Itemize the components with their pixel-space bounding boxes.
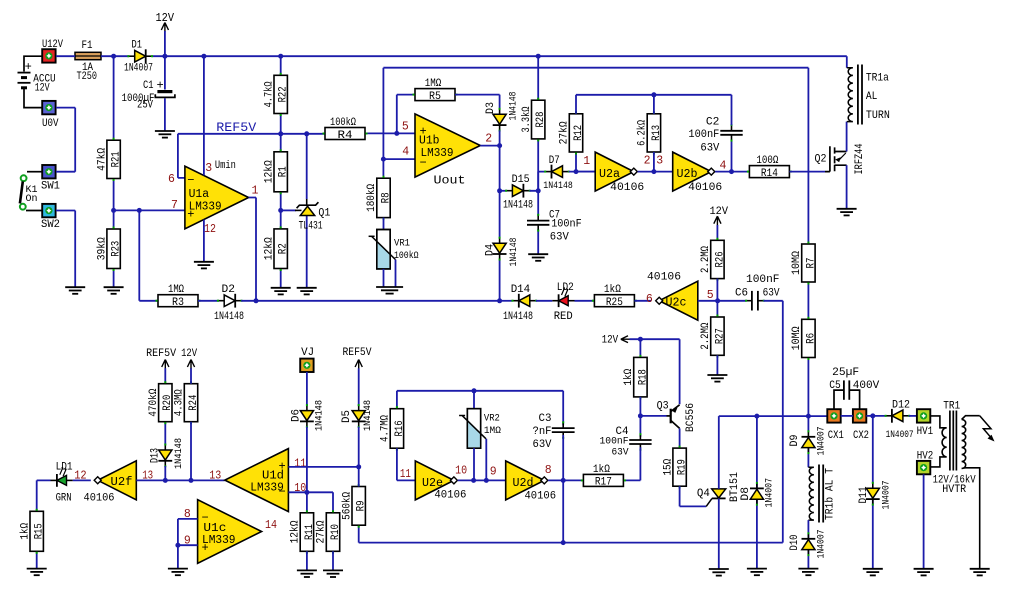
wire sense column xyxy=(807,68,809,416)
resistor R13 xyxy=(637,114,663,152)
wire D11 leads xyxy=(872,416,874,569)
junction xyxy=(162,54,167,59)
op-amp U1b LM339 xyxy=(415,114,480,177)
capacitor C5 xyxy=(834,380,860,409)
junction xyxy=(163,478,168,483)
svg-text:R18: R18 xyxy=(637,369,649,385)
svg-text:C3: C3 xyxy=(539,413,552,425)
wire R16-U2e xyxy=(397,448,415,480)
svg-text:100Ω: 100Ω xyxy=(756,155,778,167)
terminal SW1 xyxy=(42,165,55,178)
junction xyxy=(536,54,541,59)
svg-text:47kΩ: 47kΩ xyxy=(96,148,108,171)
inverter U2e 40106 xyxy=(415,461,457,500)
wire Q2 source xyxy=(846,165,848,209)
wire osc2 top rail xyxy=(397,391,563,426)
wire D10 leads xyxy=(807,520,809,569)
svg-text:HV1: HV1 xyxy=(917,426,934,438)
ground Q4 xyxy=(709,569,729,576)
diode D8 1N4007 xyxy=(750,483,764,504)
svg-text:1: 1 xyxy=(583,155,590,168)
wire pin11 line xyxy=(288,466,358,468)
svg-text:U0V: U0V xyxy=(42,118,59,130)
wire 12V arrow stem xyxy=(164,31,166,56)
resistor R10 xyxy=(316,513,342,552)
wire C6 right xyxy=(763,301,782,543)
svg-text:R10: R10 xyxy=(330,524,342,540)
svg-text:470kΩ: 470kΩ xyxy=(148,388,160,416)
junction xyxy=(394,131,399,136)
capacitor C6 100nF xyxy=(746,291,763,311)
wire R19-gate xyxy=(680,486,707,506)
wire U1a out xyxy=(249,198,256,301)
svg-text:LD1: LD1 xyxy=(56,461,73,473)
LED LD2 RED xyxy=(552,288,574,308)
svg-text:U2b: U2b xyxy=(677,168,698,181)
svg-text:R2: R2 xyxy=(278,243,290,254)
wire R27 bottom xyxy=(716,355,718,375)
resistor R17 xyxy=(583,464,623,489)
svg-text:R24: R24 xyxy=(188,394,200,410)
ground R15 xyxy=(27,569,47,576)
wire pin5 net xyxy=(365,95,415,134)
transistor Q2 IRFZ44 mosfet xyxy=(825,146,847,171)
svg-text:R9: R9 xyxy=(356,500,368,511)
svg-text:RED: RED xyxy=(554,311,573,323)
ground D10 xyxy=(798,569,818,576)
supply arrow 12V R26 xyxy=(714,216,721,226)
svg-text:VR1: VR1 xyxy=(394,238,410,250)
junction xyxy=(574,169,579,174)
wire R9 top xyxy=(358,467,360,487)
shunt-ref Q1 TL431 xyxy=(295,199,318,216)
junction xyxy=(254,298,259,303)
wire R28 leads xyxy=(537,56,539,191)
svg-text:R26: R26 xyxy=(714,251,726,267)
svg-text:1N4148: 1N4148 xyxy=(543,180,573,192)
svg-text:12: 12 xyxy=(204,223,216,236)
supply arrow 12V xyxy=(161,23,168,33)
svg-text:R25: R25 xyxy=(606,297,623,309)
svg-text:T250: T250 xyxy=(77,71,98,83)
svg-text:9: 9 xyxy=(490,466,497,479)
wire VR2 bottom xyxy=(473,448,475,480)
svg-text:R21: R21 xyxy=(111,151,123,167)
svg-text:11: 11 xyxy=(400,468,411,481)
svg-text:10MΩ: 10MΩ xyxy=(791,251,803,275)
svg-text:R19: R19 xyxy=(677,459,689,475)
svg-text:560kΩ: 560kΩ xyxy=(341,492,353,520)
svg-text:Uout: Uout xyxy=(434,175,466,188)
svg-text:Q2: Q2 xyxy=(815,154,827,166)
wire feedback sense xyxy=(383,68,808,179)
svg-text:U2d: U2d xyxy=(513,477,534,490)
supply arrow 12V left xyxy=(621,336,630,343)
battery ACCU wires xyxy=(24,56,42,107)
svg-text:1kΩ: 1kΩ xyxy=(604,284,621,296)
wire U1c inputs xyxy=(178,519,198,569)
svg-text:1: 1 xyxy=(252,185,259,198)
svg-text:TR1b AL T: TR1b AL T xyxy=(825,468,837,520)
svg-text:R22: R22 xyxy=(278,86,290,102)
resistor R8 xyxy=(366,178,392,217)
ground R11 xyxy=(297,570,317,577)
svg-text:Q4: Q4 xyxy=(697,488,710,500)
svg-text:TL431: TL431 xyxy=(299,221,323,233)
svg-text:4.3MΩ: 4.3MΩ xyxy=(174,389,186,416)
svg-text:C5: C5 xyxy=(829,380,841,392)
svg-text:27kΩ: 27kΩ xyxy=(559,121,571,144)
svg-text:2: 2 xyxy=(644,155,651,168)
svg-text:R28: R28 xyxy=(535,112,547,128)
ground R10 xyxy=(323,570,343,577)
resistor R7 xyxy=(791,244,817,282)
resistor R19 xyxy=(662,448,688,486)
svg-text:1N4007: 1N4007 xyxy=(764,478,776,508)
inverter U2a 40106 xyxy=(595,152,637,191)
terminal HV1 xyxy=(917,409,930,422)
transformer TR1a primary xyxy=(847,68,853,122)
svg-text:1MΩ: 1MΩ xyxy=(425,78,442,90)
svg-text:LM339: LM339 xyxy=(421,147,454,160)
svg-text:12V: 12V xyxy=(602,335,619,347)
svg-text:R3: R3 xyxy=(172,297,184,309)
svg-text:C1: C1 xyxy=(143,80,154,92)
svg-text:R14: R14 xyxy=(761,168,778,180)
diode D5 1N4148 xyxy=(352,406,366,427)
svg-text:180kΩ: 180kΩ xyxy=(366,184,378,212)
resistor R3 xyxy=(158,284,198,309)
svg-text:1N4007: 1N4007 xyxy=(816,427,828,456)
junction xyxy=(729,169,734,174)
svg-text:40106: 40106 xyxy=(688,182,722,194)
op-amp U1c LM339 xyxy=(198,500,262,564)
svg-text:F1: F1 xyxy=(82,40,93,52)
resistor R18 xyxy=(623,357,649,397)
svg-text:VR2: VR2 xyxy=(484,413,500,425)
wire C4 top xyxy=(639,416,641,437)
svg-text:HV2: HV2 xyxy=(917,450,934,462)
junction xyxy=(870,413,875,418)
ground U1a pin12 xyxy=(194,262,214,269)
diode D6 1N4148 xyxy=(300,406,314,427)
wire C2 top xyxy=(731,95,733,126)
wire R8-VR1 xyxy=(383,218,385,230)
wire D15-C7 node xyxy=(530,172,546,191)
svg-text:1N4148: 1N4148 xyxy=(503,200,533,212)
wire R22 leads xyxy=(280,56,282,288)
wire arrow-D5 xyxy=(358,368,360,406)
TR1 core xyxy=(950,411,957,471)
resistor R22 xyxy=(263,75,289,113)
wire CX line xyxy=(719,415,828,417)
svg-text:1N4148: 1N4148 xyxy=(503,311,533,323)
svg-text:U2c: U2c xyxy=(666,296,687,309)
svg-text:R1: R1 xyxy=(278,166,290,177)
wire R18-base xyxy=(640,397,666,416)
diode D13 1N4148 xyxy=(158,445,172,466)
svg-text:1MΩ: 1MΩ xyxy=(168,284,184,296)
svg-text:U12V: U12V xyxy=(42,39,63,51)
svg-text:R4: R4 xyxy=(338,130,353,142)
svg-text:6: 6 xyxy=(646,293,653,306)
capacitor C4 100nF xyxy=(629,435,651,450)
svg-text:12V: 12V xyxy=(710,206,729,218)
svg-text:?nF: ?nF xyxy=(533,426,552,438)
capacitor C2 100nF xyxy=(720,125,742,140)
wire U2c in xyxy=(698,300,718,302)
svg-text:U1a: U1a xyxy=(189,188,210,201)
svg-text:U1b: U1b xyxy=(419,135,440,148)
inverter U2c 40106 xyxy=(656,281,698,320)
svg-text:D2: D2 xyxy=(222,284,236,296)
ground VR1 xyxy=(376,287,403,294)
wire pin13 line xyxy=(136,479,225,481)
diode D12 1N4007 xyxy=(886,409,909,423)
ground C7 xyxy=(528,254,548,261)
svg-text:1N4007: 1N4007 xyxy=(816,530,828,559)
wire U2d out xyxy=(548,479,583,481)
ground R23 xyxy=(104,287,124,294)
wire pin7 line xyxy=(114,209,185,211)
wire R18 top xyxy=(639,339,641,357)
svg-text:10MΩ: 10MΩ xyxy=(791,326,803,350)
wire R10 gnd xyxy=(332,551,334,570)
wire D6-pin10 xyxy=(306,427,308,513)
resistor R16 xyxy=(380,409,406,449)
svg-text:4: 4 xyxy=(402,145,409,158)
svg-text:1N4007: 1N4007 xyxy=(881,481,893,510)
svg-text:D13: D13 xyxy=(150,448,162,463)
junction xyxy=(137,208,142,213)
thyristor Q4 BT151 xyxy=(706,489,726,507)
diode D1 1N4007 xyxy=(129,49,152,63)
svg-text:−: − xyxy=(187,173,194,187)
svg-text:63V: 63V xyxy=(533,439,552,451)
svg-text:REF5V: REF5V xyxy=(343,347,372,359)
node REF5V/R22/R1 xyxy=(278,131,283,136)
svg-text:LM339: LM339 xyxy=(202,534,236,547)
fuse F1 xyxy=(75,52,101,59)
junction xyxy=(278,208,283,213)
svg-text:6: 6 xyxy=(168,173,175,186)
svg-text:Q3: Q3 xyxy=(657,400,669,412)
transformer TR1b feedback winding xyxy=(808,467,814,520)
wire D3 to out xyxy=(499,130,501,145)
op-amp U1a LM339 xyxy=(185,166,249,229)
wire D9 leads xyxy=(807,416,809,467)
svg-text:CX2: CX2 xyxy=(853,430,869,442)
wire LD2-R25 xyxy=(575,300,595,302)
svg-text:D5: D5 xyxy=(341,410,353,423)
resistor R27 xyxy=(700,317,726,355)
svg-text:D1: D1 xyxy=(132,40,143,52)
resistor R11 xyxy=(290,513,316,552)
resistor R12 xyxy=(559,114,585,152)
svg-text:TR1a: TR1a xyxy=(866,73,889,85)
terminal HV2 xyxy=(917,461,930,474)
wire HV2 ground xyxy=(923,474,925,569)
resistor R20 xyxy=(148,384,174,422)
wire C1 net xyxy=(164,56,166,131)
wire U1b out xyxy=(480,146,499,191)
inverter U2b 40106 xyxy=(673,152,715,191)
svg-text:1N4148: 1N4148 xyxy=(173,438,185,469)
svg-text:LD2: LD2 xyxy=(557,282,574,294)
svg-text:+: + xyxy=(187,208,194,222)
svg-text:D9: D9 xyxy=(789,435,801,447)
svg-text:63V: 63V xyxy=(612,446,630,458)
resistor R5 xyxy=(415,78,455,103)
inverter U2d 40106 xyxy=(506,461,548,500)
ground HV2 xyxy=(914,569,934,576)
wire U2b out xyxy=(715,140,749,172)
svg-text:6.2kΩ: 6.2kΩ xyxy=(637,120,649,146)
terminal SW2 xyxy=(42,204,55,217)
svg-text:100kΩ: 100kΩ xyxy=(394,250,419,262)
resistor R2 xyxy=(263,229,289,269)
svg-text:100nF: 100nF xyxy=(551,219,582,231)
wire D2 out xyxy=(241,300,499,302)
wire R3 branch xyxy=(139,210,158,300)
svg-text:+: + xyxy=(25,60,32,74)
svg-text:D3: D3 xyxy=(485,102,497,114)
ground D8 xyxy=(747,569,767,576)
wire F1 node down xyxy=(113,56,115,287)
wire osc top rail xyxy=(576,95,732,114)
wire Q1 anode xyxy=(306,216,308,288)
wire U2a in xyxy=(576,152,595,172)
terminal U12V xyxy=(42,49,55,62)
svg-text:14: 14 xyxy=(265,519,277,532)
wire CX1-CX2 xyxy=(841,415,853,417)
battery ACCU 12V xyxy=(18,73,31,88)
svg-text:8: 8 xyxy=(545,464,552,477)
svg-text:1N4148: 1N4148 xyxy=(314,400,326,431)
svg-text:15Ω: 15Ω xyxy=(662,458,674,475)
svg-text:R7: R7 xyxy=(805,258,817,269)
svg-text:+: + xyxy=(157,79,164,93)
wire Q4 cathode xyxy=(718,498,720,569)
svg-text:39kΩ: 39kΩ xyxy=(96,237,108,260)
svg-text:3: 3 xyxy=(656,155,663,168)
svg-text:On: On xyxy=(26,193,38,205)
wire C7 leads xyxy=(537,191,539,254)
svg-text:100nF: 100nF xyxy=(688,129,719,141)
svg-text:25V: 25V xyxy=(137,100,153,112)
svg-text:HVTR: HVTR xyxy=(942,484,966,496)
svg-text:R8: R8 xyxy=(380,192,392,203)
resistor R25 xyxy=(594,284,634,309)
wire C4 bottom / R17 right xyxy=(623,447,640,480)
svg-text:63V: 63V xyxy=(550,232,569,244)
svg-text:R15: R15 xyxy=(34,523,46,539)
svg-text:D4: D4 xyxy=(485,244,497,256)
resistor R1 xyxy=(263,152,289,192)
svg-text:1MΩ: 1MΩ xyxy=(484,425,501,437)
svg-text:10: 10 xyxy=(294,482,306,495)
wire Q2 drain xyxy=(846,122,848,152)
supply arrow 12V R24 xyxy=(187,360,194,370)
svg-text:100nF: 100nF xyxy=(746,274,780,286)
junction xyxy=(471,478,476,483)
svg-text:40106: 40106 xyxy=(647,272,681,284)
ground R2 xyxy=(271,288,291,295)
wire R26-R27 xyxy=(716,279,718,317)
junction xyxy=(381,157,386,162)
svg-text:3: 3 xyxy=(205,162,212,175)
resistor R6 xyxy=(791,319,817,357)
svg-text:100kΩ: 100kΩ xyxy=(330,117,356,129)
svg-text:U2f: U2f xyxy=(111,476,133,489)
svg-text:R11: R11 xyxy=(304,524,316,540)
svg-text:D11: D11 xyxy=(858,487,870,504)
svg-text:C6: C6 xyxy=(735,287,748,299)
diode D4 1N4148 xyxy=(493,238,507,259)
diode D14 1N4148 xyxy=(513,294,536,308)
wire R3-D2 xyxy=(198,300,219,302)
svg-text:400V: 400V xyxy=(853,380,880,392)
diode D3 1N4148 xyxy=(493,109,507,130)
svg-text:12kΩ: 12kΩ xyxy=(263,237,275,260)
svg-text:5: 5 xyxy=(402,120,409,133)
resistor R9 xyxy=(341,487,367,526)
junction xyxy=(175,543,180,548)
svg-text:1N4007: 1N4007 xyxy=(886,429,914,441)
resistor R14 xyxy=(749,155,789,180)
svg-text:LM339: LM339 xyxy=(250,481,284,494)
wire R15-LD1 xyxy=(37,480,51,568)
junction xyxy=(497,143,502,148)
svg-text:D7: D7 xyxy=(549,155,560,167)
diode D7 1N4148 xyxy=(546,165,569,179)
switch K1 xyxy=(20,172,42,211)
op-amp U1d LM339 xyxy=(225,449,289,512)
resistor R28 xyxy=(521,100,547,139)
svg-text:CX1: CX1 xyxy=(828,430,844,442)
svg-text:D12: D12 xyxy=(892,399,910,411)
svg-text:D14: D14 xyxy=(511,284,531,296)
svg-text:10: 10 xyxy=(455,464,467,477)
wire pin10 line xyxy=(288,492,333,513)
svg-text:1kΩ: 1kΩ xyxy=(593,464,610,476)
junction xyxy=(715,298,720,303)
resistor R24 xyxy=(174,384,200,422)
wire U1a pin12 xyxy=(203,220,205,262)
ground D11 xyxy=(863,569,883,576)
svg-text:1N4007: 1N4007 xyxy=(124,63,153,75)
wire 12V feed xyxy=(630,339,680,404)
ground R27 xyxy=(707,375,727,382)
wire Uout-D15 node xyxy=(500,190,507,192)
wire gate line xyxy=(789,171,825,173)
svg-text:1N4148: 1N4148 xyxy=(508,238,520,267)
svg-text:12V: 12V xyxy=(35,82,50,94)
junction xyxy=(356,464,361,469)
svg-text:11: 11 xyxy=(294,457,306,470)
LED LD1 GRN xyxy=(51,467,73,487)
transistor Q3 BC556 xyxy=(667,405,680,429)
svg-text:4.7kΩ: 4.7kΩ xyxy=(263,81,275,107)
wire R26 top xyxy=(716,225,718,240)
ground Q1 xyxy=(297,288,317,295)
resistor R4 xyxy=(325,117,365,142)
junction xyxy=(278,54,283,59)
ground Q2 xyxy=(837,209,857,216)
terminal CX2 xyxy=(853,409,866,422)
junction xyxy=(561,478,566,483)
svg-text:BC556: BC556 xyxy=(685,403,697,432)
